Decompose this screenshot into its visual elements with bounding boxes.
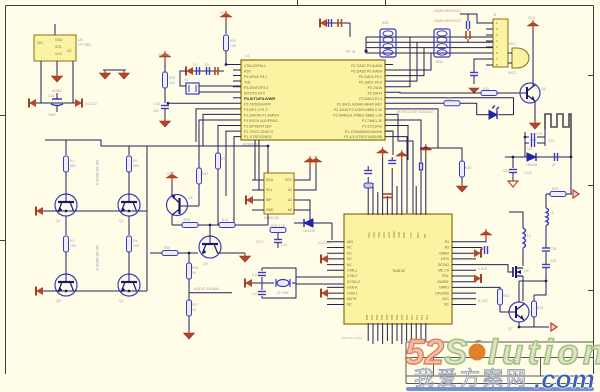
connector J1 [493, 13, 508, 67]
U3 pin stubs left [252, 180, 264, 210]
svg-text:A0: A0 [288, 208, 292, 212]
wire [267, 146, 269, 225]
wire [474, 59, 486, 70]
svg-text:AVD: AVD [387, 231, 391, 238]
regulator U5 [34, 35, 91, 61]
svg-text:VO1: VO1 [55, 45, 62, 49]
svg-text:P01: P01 [370, 314, 374, 320]
inductor L2 [523, 222, 531, 248]
ground [184, 330, 195, 339]
ground [52, 73, 63, 82]
svg-text:P12: P12 [415, 314, 419, 320]
power VCC [396, 150, 408, 161]
svg-text:10K: 10K [133, 244, 140, 248]
svg-text:P2.6/A14: P2.6/A14 [368, 92, 382, 96]
svg-text:IR RECEIVE MODULE: IR RECEIVE MODULE [397, 110, 434, 114]
svg-text:NC: NC [444, 303, 449, 307]
eeprom U3 [264, 173, 294, 220]
U3 right wires [294, 167, 316, 223]
svg-text:TA8132: TA8132 [392, 269, 405, 273]
svg-text:1K: 1K [192, 308, 197, 312]
svg-text:C32: C32 [503, 169, 509, 173]
wire [164, 88, 166, 103]
resistor R16 [187, 263, 199, 300]
wire [522, 276, 524, 301]
transistor Q7 emitter wire [519, 323, 549, 328]
audio divider chain wire [188, 253, 190, 263]
resistor R17 [187, 300, 199, 330]
capacitor C27 [542, 252, 550, 281]
wire [524, 146, 526, 157]
resistor R4 [127, 217, 140, 275]
svg-text:NC: NC [347, 263, 352, 267]
wire [259, 140, 264, 190]
RF bus node [346, 37, 368, 54]
MOSFET Q9 [513, 266, 529, 278]
svg-text:52: 52 [405, 333, 444, 372]
svg-text:P1.3/MOSI P1.4/MISO: P1.3/MOSI P1.4/MISO [244, 114, 279, 118]
power arrow left [29, 99, 36, 108]
svg-text:C28: C28 [550, 247, 556, 251]
svg-text:A1: A1 [288, 198, 292, 202]
svg-text:U1: U1 [245, 54, 249, 58]
capacitor C31 [552, 153, 558, 167]
svg-text:1K: 1K [192, 271, 197, 275]
svg-text:U5: U5 [78, 38, 83, 42]
port arrow right [551, 323, 557, 331]
capacitor C15 [466, 29, 470, 42]
svg-text:10K: 10K [70, 244, 77, 248]
power arrow U3 [246, 196, 253, 205]
wire [519, 280, 546, 282]
svg-text:Q2: Q2 [119, 219, 124, 223]
svg-text:SETAD: SETAD [438, 263, 450, 267]
svg-text:RST: RST [244, 70, 252, 74]
wire [518, 281, 520, 302]
resistor R10 [224, 35, 237, 65]
svg-text:NC: NC [347, 246, 352, 250]
svg-text:P1.175/A085001/A0008: P1.175/A085001/A0008 [345, 130, 382, 134]
capacitor C12 [252, 273, 266, 278]
svg-text:P2.0 P2.1 P2.2: P2.0 P2.1 P2.2 [342, 336, 363, 340]
wire [460, 14, 493, 23]
wire [505, 156, 571, 158]
svg-text:104: 104 [153, 109, 159, 113]
svg-text:.com: .com [534, 364, 595, 392]
svg-text:R13: R13 [184, 218, 190, 222]
svg-text:P1.7/VCC GND/T2: P1.7/VCC GND/T2 [244, 130, 273, 134]
power arrow right [75, 99, 82, 108]
J1 pin stubs [486, 23, 493, 65]
svg-text:R20: R20 [465, 166, 471, 170]
capacitor C32 [503, 157, 517, 181]
resistor R15 [150, 246, 198, 256]
wire [199, 85, 241, 87]
capacitor C13 [252, 292, 266, 297]
svg-text:INT: INT [423, 233, 427, 238]
power VCC Q5 [166, 172, 178, 195]
svg-text:P04: P04 [385, 314, 389, 320]
svg-text:R17: R17 [192, 303, 198, 307]
inductor L1 [546, 194, 554, 248]
svg-text:ORRG: ORRG [439, 286, 450, 290]
svg-text:MOTOR DRIVE A: MOTOR DRIVE A [95, 160, 99, 186]
svg-text:P11: P11 [410, 315, 414, 320]
capacitor C24 [388, 157, 396, 164]
svg-text:P0.7/AD7 P0.6/AD6: P0.7/AD7 P0.6/AD6 [351, 64, 382, 68]
resistor R22 [498, 289, 510, 312]
svg-text:P3.0/RxD P3.1: P3.0/RxD P3.1 [244, 75, 267, 79]
svg-text:C13: C13 [252, 292, 258, 296]
svg-text:R18 2.2K: R18 2.2K [271, 224, 286, 228]
U1 left pin stubs [233, 70, 241, 98]
wire [534, 281, 546, 295]
svg-text:R16: R16 [192, 266, 198, 270]
ground pair node [100, 70, 130, 79]
svg-text:NC: NC [67, 49, 72, 53]
svg-text:Q8: Q8 [541, 87, 546, 91]
svg-text:VCC: VCC [285, 178, 293, 182]
resistor R14 [219, 218, 268, 228]
svg-text:Q9: Q9 [524, 269, 529, 273]
wire [522, 248, 524, 266]
power arrow U4 left [321, 289, 328, 298]
capacitor C10 [153, 102, 169, 113]
svg-text:P0.3/AD3 P0.2: P0.3/AD3 P0.2 [359, 75, 382, 79]
resistor R24 [546, 187, 572, 197]
wire [56, 61, 58, 73]
resistor network RN1 [380, 21, 396, 57]
svg-text:P3.2/INT0/P3.3: P3.2/INT0/P3.3 [244, 86, 268, 90]
svg-text:VD3: VD3 [377, 232, 381, 238]
svg-text:R2: R2 [133, 159, 137, 163]
diode D2 [303, 219, 315, 233]
svg-text:C10: C10 [154, 102, 160, 106]
svg-text:RN1: RN1 [382, 21, 389, 25]
power arrow U4 left2 [321, 254, 328, 263]
svg-text:WP: WP [266, 198, 272, 202]
resistor R25 [444, 97, 460, 106]
svg-text:Q5: Q5 [188, 196, 193, 200]
svg-text:GND: GND [55, 38, 63, 42]
svg-text:C11: C11 [281, 243, 287, 247]
svg-text:R10: R10 [230, 39, 236, 43]
resistor R12 [216, 153, 228, 225]
svg-text:4.7uF: 4.7uF [524, 171, 532, 175]
U1 right riser wires to RF bus [385, 37, 514, 215]
port arrow right2 [573, 190, 579, 198]
svg-text:1HT0: 1HT0 [441, 257, 449, 261]
svg-text:XTAL1: XTAL1 [347, 269, 357, 273]
left H-bridge top rail wire [45, 140, 268, 146]
svg-text:ME CA: ME CA [438, 269, 449, 273]
svg-text:S: S [444, 333, 467, 372]
wire base Q8 [455, 92, 481, 94]
svg-text:VD1: VD1 [367, 232, 371, 238]
svg-text:MUTE: MUTE [347, 297, 357, 301]
crystal Y1 [184, 78, 199, 94]
svg-text:P10: P10 [405, 314, 409, 320]
transistor Q6 [199, 236, 221, 266]
svg-text:TxD: TxD [244, 81, 251, 85]
svg-text:R24: R24 [552, 187, 558, 191]
U1 left bus wires [168, 103, 241, 225]
wire right column bus [146, 146, 148, 291]
transistor Q7 [508, 302, 529, 331]
svg-text:R19: R19 [483, 87, 489, 91]
svg-text:P2.5/A13 P2.4: P2.5/A13 P2.4 [359, 97, 382, 101]
resistor R3 [64, 217, 77, 275]
ground Q8 [530, 120, 541, 129]
capacitor bank C29 [525, 129, 554, 147]
svg-text:L-OUT: L-OUT [478, 267, 488, 271]
watermark o sun [469, 340, 486, 361]
wire [420, 148, 462, 163]
svg-text:P3.7/RD/EA/VPP: P3.7/RD/EA/VPP [244, 103, 272, 107]
svg-text:P1.0/P1.1 P1.2: P1.0/P1.1 P1.2 [244, 108, 268, 112]
transistor Q5 [167, 195, 193, 216]
svg-text:VDD: VDD [397, 231, 401, 238]
watermark blue bar [406, 387, 594, 391]
svg-text:P1.4/1.0/T001/1/A00/AB: P1.4/1.0/T001/1/A00/AB [344, 135, 382, 139]
svg-text:R4: R4 [133, 239, 137, 243]
svg-text:Q7: Q7 [508, 327, 513, 331]
svg-text:RST: RST [416, 232, 420, 238]
wire row A [36, 210, 147, 212]
svg-text:pF: pF [552, 163, 556, 167]
wire [255, 140, 264, 180]
svg-text:P1.6 A11/Flo: P1.6 A11/Flo [362, 125, 382, 129]
svg-text:P1.5/SCK ALE/PROG: P1.5/SCK ALE/PROG [244, 119, 278, 123]
svg-text:GAIN ADJUST1: GAIN ADJUST1 [434, 9, 461, 13]
svg-text:NC: NC [347, 251, 352, 255]
capacitor C28 [542, 247, 556, 251]
resistor R23 [532, 295, 544, 327]
svg-text:MIC1: MIC1 [508, 71, 516, 75]
power arrow right [474, 249, 481, 258]
svg-text:HT7550: HT7550 [78, 43, 91, 47]
svg-text:R11: R11 [202, 172, 208, 176]
svg-text:R12: R12 [221, 157, 227, 161]
svg-text:R23: R23 [537, 306, 543, 310]
svg-text:R1: R1 [445, 240, 449, 244]
transistor Q1 [55, 194, 77, 223]
resistor R20 [460, 161, 472, 183]
resistor network RN2 [434, 29, 450, 64]
svg-text:C20: C20 [48, 94, 54, 98]
svg-text:R25: R25 [446, 97, 452, 101]
svg-text:Q3: Q3 [56, 299, 61, 303]
svg-text:L2: L2 [527, 234, 531, 238]
svg-text:560: 560 [133, 164, 139, 168]
svg-text:XTAL2/XTAL1: XTAL2/XTAL1 [244, 64, 266, 68]
microcontroller U1 [241, 54, 385, 147]
wire [29, 102, 82, 104]
wire [40, 61, 42, 103]
power VCC R21 chain [158, 51, 171, 72]
RF bus wires [366, 37, 493, 53]
ground [160, 118, 171, 127]
svg-text:NC: NC [347, 257, 352, 261]
svg-text:AVC: AVC [442, 297, 449, 301]
transistor Q8 [520, 83, 546, 103]
svg-text:10uF: 10uF [48, 113, 56, 117]
resistor R2 [127, 146, 139, 194]
svg-text:32.768K: 32.768K [277, 291, 290, 295]
wire [534, 101, 536, 120]
crystal circuit wires [251, 268, 296, 298]
svg-text:L1: L1 [550, 211, 554, 215]
svg-text:R1: R1 [70, 159, 74, 163]
wire MOSFET gate [476, 265, 513, 272]
svg-text:MIC1: MIC1 [508, 42, 516, 46]
svg-text:VO2: VO2 [55, 52, 62, 56]
wire [180, 71, 186, 86]
svg-text:SCL: SCL [266, 188, 273, 192]
wire [296, 283, 344, 285]
wire [509, 212, 523, 222]
svg-text:GEN A: GEN A [347, 286, 358, 290]
U4 left pin stubs [327, 242, 344, 305]
svg-text:Q6: Q6 [203, 262, 208, 266]
svg-text:P05: P05 [390, 314, 394, 320]
ground [457, 183, 468, 192]
svg-text:VCC3.0: VCC3.0 [85, 102, 97, 106]
power VCC speaker [527, 16, 539, 86]
U1 right pin stubs [385, 65, 393, 132]
svg-text:C30: C30 [548, 139, 554, 143]
component box C22 [364, 183, 373, 188]
svg-text:Q4: Q4 [119, 299, 124, 303]
resistor R18 [270, 224, 286, 233]
radio IC U4 [344, 214, 452, 324]
capacitor C23 orange [383, 194, 392, 198]
U4 top pin wires [368, 155, 426, 215]
diode D4 [526, 153, 537, 167]
power arrow right2 [474, 274, 481, 283]
svg-text:1N4148: 1N4148 [526, 163, 537, 167]
speaker LS1 [508, 42, 529, 75]
wire [209, 225, 211, 236]
power VCC U3 [304, 156, 316, 167]
wire [217, 252, 245, 254]
svg-text:R21: R21 [169, 76, 175, 80]
svg-text:560: 560 [70, 164, 76, 168]
svg-text:1N4148: 1N4148 [303, 229, 315, 233]
wire [164, 109, 166, 118]
ground arc [469, 88, 479, 93]
capacitor C11 [274, 233, 287, 248]
U4 bottom pin stubs [368, 323, 426, 344]
crystal caps node [186, 63, 224, 76]
wire [226, 64, 241, 66]
svg-text:P2.0/A8/ao1 P/WE1 ABE8 1.30: P2.0/A8/ao1 P/WE1 ABE8 1.30 [333, 114, 382, 118]
svg-text:P07: P07 [400, 314, 404, 320]
svg-text:P1.6/PSEN/T2EX: P1.6/PSEN/T2EX [244, 125, 272, 129]
svg-text:AIN: AIN [347, 240, 353, 244]
wire [54, 24, 56, 35]
resistor R1 [64, 140, 76, 194]
svg-text:J1: J1 [493, 13, 497, 17]
svg-text:GND: GND [266, 208, 274, 212]
resistor R13 [172, 218, 219, 228]
resistor R19 [481, 87, 526, 96]
svg-text:我爱方案网: 我爱方案网 [414, 367, 529, 390]
svg-text:GNAD: GNAD [439, 251, 449, 255]
capacitor C33 [320, 19, 350, 38]
svg-text:P1.7/A6/1.30: P1.7/A6/1.30 [362, 119, 382, 123]
antenna meander [545, 114, 571, 157]
svg-text:A2: A2 [288, 188, 292, 192]
svg-text:P3.5/T1/P3.6/WR: P3.5/T1/P3.6/WR [244, 96, 275, 101]
svg-text:104: 104 [527, 147, 533, 151]
svg-text:RN2: RN2 [436, 60, 443, 64]
power VCC U3b [310, 156, 322, 167]
wire [294, 222, 332, 224]
svg-text:C28: C28 [550, 259, 556, 263]
svg-text:COM 1: COM 1 [347, 291, 358, 295]
power VCC above MCU [220, 11, 232, 34]
U4 right pin stubs [452, 242, 476, 305]
transistor Q2 [118, 194, 140, 223]
svg-text:INT1/P3.4/T0: INT1/P3.4/T0 [244, 92, 265, 96]
power arrow crystal [245, 279, 252, 288]
svg-text:P03: P03 [380, 314, 384, 320]
svg-text:OASNT: OASNT [437, 280, 449, 284]
svg-text:LRVGND: LRVGND [435, 291, 450, 295]
svg-text:R3: R3 [70, 239, 74, 243]
svg-text:AT89C52: AT89C52 [243, 143, 259, 147]
wire [171, 215, 173, 225]
wire row B [36, 290, 147, 292]
svg-text:RCL: RCL [442, 274, 449, 278]
power VCC [420, 144, 432, 155]
svg-text:VCC: VCC [220, 11, 228, 15]
svg-text:VCC: VCC [256, 240, 264, 244]
svg-text:SDA: SDA [266, 178, 274, 182]
svg-text:R-OUT: R-OUT [478, 299, 488, 303]
transistor Q3 [55, 274, 77, 303]
svg-text:AUDIO SIGNAL: AUDIO SIGNAL [194, 287, 220, 291]
svg-text:Y1: Y1 [184, 78, 188, 82]
svg-text:P06: P06 [395, 314, 399, 320]
svg-text:VCC: VCC [167, 172, 175, 176]
ground [240, 253, 251, 262]
svg-text:10K: 10K [230, 44, 237, 48]
wire [199, 91, 241, 93]
svg-text:GAIN ADJUST2: GAIN ADJUST2 [434, 19, 461, 23]
wire [500, 311, 515, 313]
svg-text:P0.1/AD1 P0.0: P0.1/AD1 P0.0 [359, 81, 382, 85]
ground C32 [508, 181, 518, 187]
svg-text:R14: R14 [222, 218, 228, 222]
wire [72, 61, 74, 103]
power arrow [36, 207, 43, 216]
svg-text:RF IN: RF IN [346, 50, 356, 54]
power VCC [377, 147, 389, 158]
LED D3 [489, 106, 499, 120]
svg-text:OSC: OSC [402, 231, 406, 238]
wire [296, 276, 344, 278]
capacitor C16 [470, 70, 478, 84]
svg-text:AT24C02: AT24C02 [264, 216, 279, 220]
svg-text:VD2: VD2 [372, 232, 376, 238]
svg-text:TST: TST [409, 232, 413, 238]
capacitor C25 [420, 163, 423, 171]
svg-text:P14: P14 [425, 314, 429, 320]
svg-text:P0.5/AD5 P0.4/AD4: P0.5/AD5 P0.4/AD4 [351, 70, 382, 74]
capacitor C26 [476, 246, 488, 254]
